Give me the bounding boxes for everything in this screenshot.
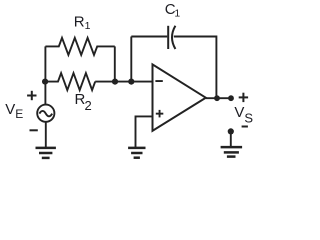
- junction node: output/feedback: [214, 95, 220, 101]
- minus sign (inverting input): [155, 80, 162, 82]
- svg-text:VS: VS: [234, 104, 253, 125]
- plus sign (non-inverting input): [156, 110, 164, 118]
- wire: R2 to inverting input: [95, 81, 152, 83]
- svg-text:R1: R1: [74, 13, 91, 32]
- ground (source): [36, 148, 56, 158]
- input node: [42, 79, 48, 85]
- svg-text:C1: C1: [165, 1, 181, 20]
- svg-text:VE: VE: [5, 101, 23, 121]
- wire: VS minus terminal to ground: [230, 131, 232, 146]
- wire: source bottom to ground: [45, 122, 47, 147]
- terminal: VS plus: [228, 95, 234, 101]
- ground (op-amp non-inverting input): [128, 148, 145, 158]
- op-amp U1: [153, 64, 206, 130]
- junction node: feedback tap: [128, 79, 134, 85]
- capacitor C1: [168, 26, 175, 49]
- wire: R1 right vertical down to node: [114, 46, 116, 81]
- ground (output): [221, 147, 243, 157]
- plus sign (output): [239, 93, 248, 102]
- svg-text:R2: R2: [75, 91, 92, 113]
- junction node: R1/R2: [112, 79, 118, 85]
- terminal: VS minus: [228, 128, 234, 134]
- resistor R1: [45, 38, 114, 55]
- wire: non-inverting input to ground stem: [136, 116, 153, 147]
- minus sign (source): [30, 129, 38, 131]
- plus sign (source): [27, 91, 36, 100]
- wire: C1 right plate to output corner and down: [174, 37, 217, 99]
- minus sign (output): [242, 126, 248, 128]
- wire: top feedback to C1 left plate: [131, 36, 167, 38]
- voltage source VE: [37, 105, 54, 122]
- wire: output: [206, 97, 231, 99]
- wire: feedback left vertical: [130, 37, 132, 82]
- resistor R2: [45, 73, 95, 90]
- wire: left vertical from R1 corner through input node to source top: [44, 46, 46, 104]
